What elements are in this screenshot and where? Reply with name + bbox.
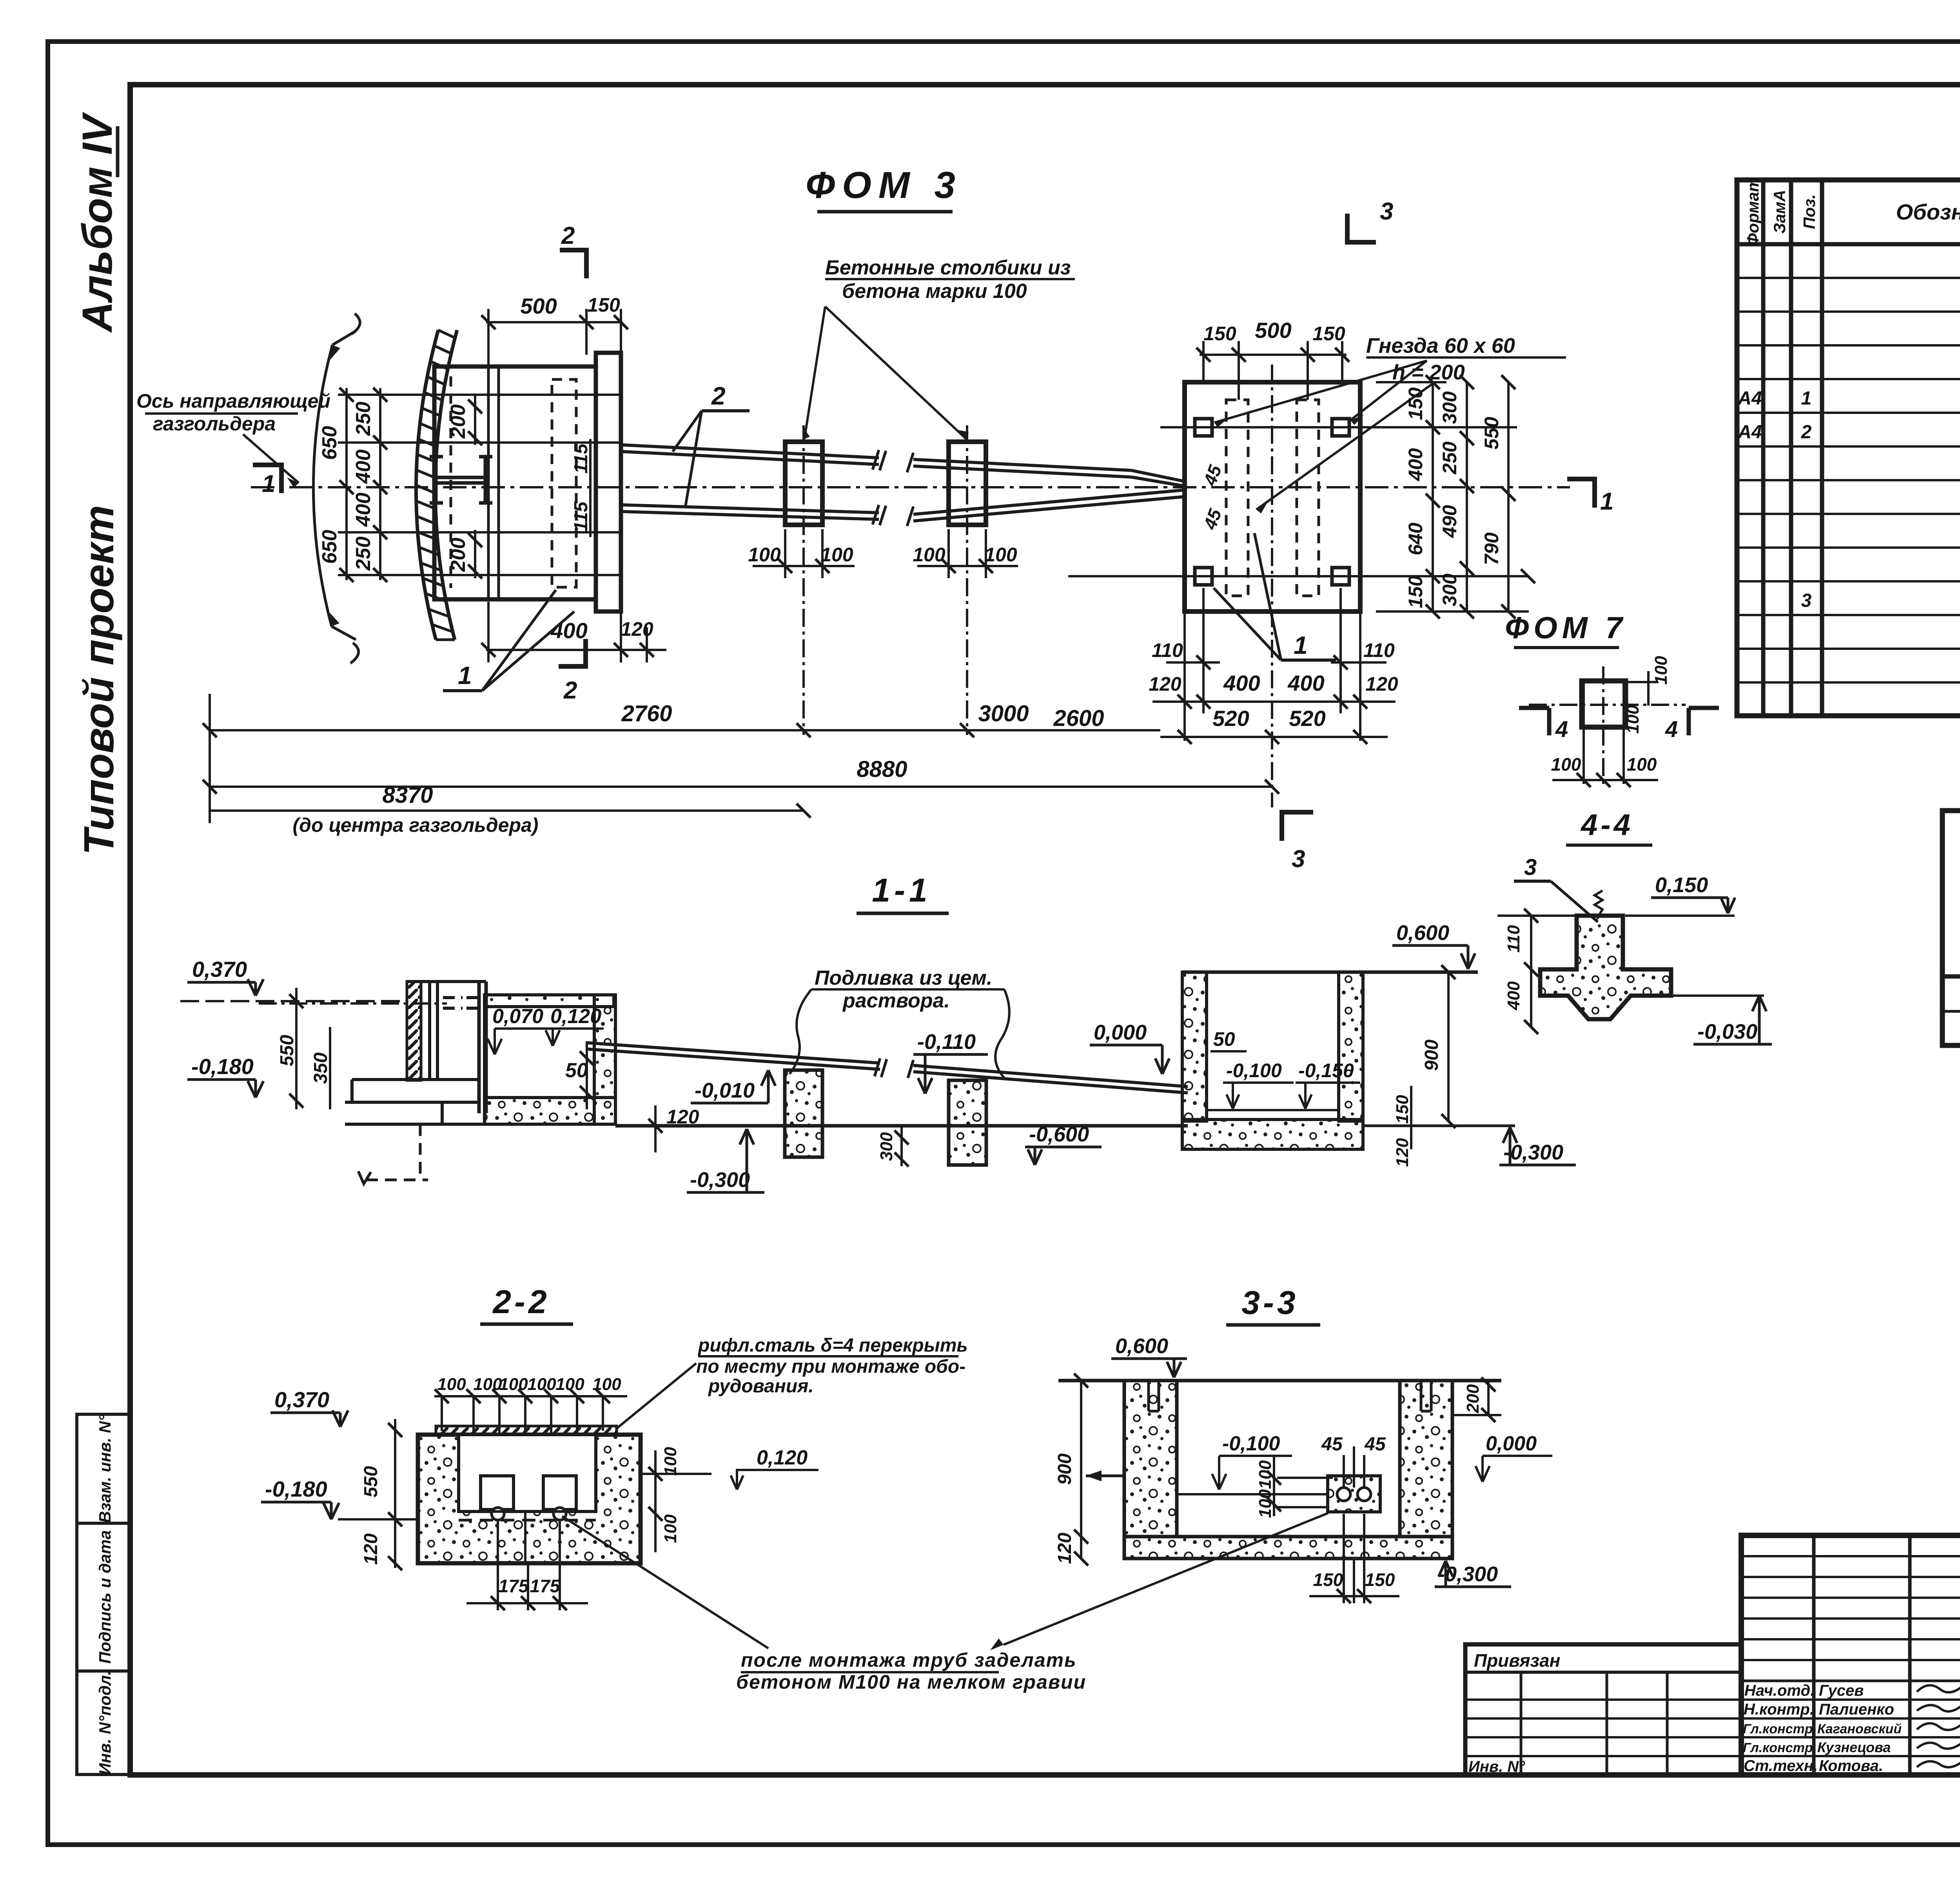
svg-text:ЗамА: ЗамА bbox=[1770, 190, 1789, 234]
bottom-left stamp strip: Инв. № подл. bbox=[77, 1671, 130, 1775]
dim 200 upper (left block) bbox=[474, 396, 476, 445]
svg-text:2: 2 bbox=[561, 222, 575, 249]
FOM7 extension lines bbox=[1583, 681, 1585, 784]
concrete post 1 (section) bbox=[785, 1070, 822, 1157]
right block top dim 150/500/150 bbox=[1200, 354, 1347, 356]
svg-text:0,150: 0,150 bbox=[1655, 873, 1708, 897]
svg-text:650: 650 bbox=[318, 530, 341, 564]
post 1 dim 100/100 bbox=[753, 565, 855, 567]
anchor rods through section (left to posts) bbox=[586, 1043, 880, 1069]
anchor boxes (sec 2-2) bbox=[481, 1476, 514, 1510]
steel table frame bbox=[1942, 811, 1960, 1045]
svg-text:Бетонные столбики из: Бетонные столбики из bbox=[825, 256, 1071, 279]
svg-text:Инв. N°подл.: Инв. N°подл. bbox=[96, 1671, 114, 1775]
section mark 3 top bbox=[1347, 214, 1376, 242]
svg-text:250: 250 bbox=[352, 402, 375, 436]
anchor socket top-right bbox=[1332, 419, 1349, 436]
svg-text:100: 100 bbox=[1651, 656, 1671, 685]
svg-text:Инв. N°: Инв. N° bbox=[1468, 1758, 1525, 1775]
svg-text:-0,010: -0,010 bbox=[695, 1079, 755, 1102]
svg-text:1: 1 bbox=[1294, 631, 1308, 659]
svg-text:150: 150 bbox=[1313, 1570, 1343, 1590]
floor line (sec 3-3) bbox=[1177, 1493, 1328, 1495]
svg-text:-0,300: -0,300 bbox=[1503, 1141, 1563, 1164]
section mark 4 left bbox=[1519, 708, 1549, 735]
section mark 2 bottom bbox=[559, 639, 586, 666]
svg-text:350: 350 bbox=[310, 1052, 331, 1084]
parts table column lines bbox=[1761, 180, 1766, 716]
left dim chain 550/120 (sec 2-2) bbox=[394, 1419, 396, 1568]
svg-text:120: 120 bbox=[621, 618, 653, 640]
right pit (sec 1-1): ground top line bbox=[1182, 971, 1478, 974]
section mark 3 bottom bbox=[1282, 812, 1313, 841]
concrete post 1 (plan) bbox=[785, 442, 822, 525]
svg-text:120: 120 bbox=[1393, 1138, 1412, 1167]
left wall (sec 3-3) bbox=[1124, 1381, 1177, 1537]
parts table header bottom bbox=[1737, 242, 1960, 247]
svg-text:4: 4 bbox=[1555, 717, 1568, 742]
inner white cavity bbox=[459, 1435, 596, 1511]
svg-text:2760: 2760 bbox=[621, 701, 672, 726]
svg-text:100: 100 bbox=[437, 1375, 466, 1394]
svg-text:100: 100 bbox=[984, 544, 1017, 566]
right block second chain 300/250/490/300 bbox=[1466, 382, 1468, 611]
svg-text:рифл.сталь δ=4 перекрыть: рифл.сталь δ=4 перекрыть bbox=[697, 1335, 968, 1356]
top dim line 100x6 (sec 2-2) bbox=[434, 1395, 627, 1397]
svg-text:бетона марки 100: бетона марки 100 bbox=[842, 280, 1027, 303]
anchor socket bottom-right bbox=[1332, 568, 1349, 585]
svg-text:45: 45 bbox=[1321, 1434, 1343, 1455]
svg-text:550: 550 bbox=[361, 1466, 381, 1497]
svg-text:120: 120 bbox=[1149, 673, 1181, 695]
svg-text:1: 1 bbox=[1801, 388, 1812, 409]
long dim 8370 (to gasholder center) bbox=[210, 809, 804, 812]
svg-text:110: 110 bbox=[1152, 639, 1183, 661]
svg-text:4-4: 4-4 bbox=[1580, 808, 1633, 842]
I-beam symbol bbox=[430, 457, 492, 503]
svg-text:Котова.: Котова. bbox=[1819, 1757, 1883, 1775]
svg-text:2600: 2600 bbox=[1053, 706, 1104, 731]
svg-text:Ст.техн.: Ст.техн. bbox=[1744, 1757, 1818, 1775]
svg-text:по месту при монтаже обо-: по месту при монтаже обо- bbox=[696, 1356, 965, 1377]
right block third chain 550/790 bbox=[1507, 382, 1510, 611]
top dim 500/150 (left block) bbox=[486, 321, 622, 323]
svg-text:400: 400 bbox=[1287, 671, 1324, 695]
svg-text:Гусев: Гусев bbox=[1819, 1682, 1864, 1699]
svg-text:1: 1 bbox=[262, 470, 275, 497]
svg-text:400: 400 bbox=[1504, 981, 1523, 1011]
svg-text:250: 250 bbox=[1439, 441, 1461, 475]
svg-text:ФОМ 7: ФОМ 7 bbox=[1505, 610, 1627, 645]
svg-text:Привязан: Привязан bbox=[1474, 1650, 1560, 1671]
privyazan inner columns bbox=[1520, 1672, 1523, 1775]
svg-text:-0,300: -0,300 bbox=[690, 1168, 750, 1192]
svg-text:400: 400 bbox=[352, 493, 375, 527]
svg-text:-0,100: -0,100 bbox=[1226, 1060, 1282, 1081]
main horizontal axis line bbox=[251, 486, 1570, 488]
svg-text:Кагановский: Кагановский bbox=[1817, 1722, 1902, 1736]
privyazan row lines bbox=[1465, 1698, 1741, 1701]
svg-text:-0,600: -0,600 bbox=[1029, 1123, 1089, 1146]
svg-text:200: 200 bbox=[1463, 1384, 1483, 1413]
svg-text:после монтажа труб заделать: после монтажа труб заделать bbox=[741, 1649, 1077, 1671]
svg-text:0,370: 0,370 bbox=[192, 957, 247, 982]
rods fanning into right block bbox=[1131, 470, 1185, 486]
svg-text:150: 150 bbox=[1365, 1570, 1395, 1590]
svg-text:2-2: 2-2 bbox=[492, 1283, 550, 1320]
svg-text:100: 100 bbox=[1623, 705, 1642, 734]
checkered plate strip (sec 2-2) bbox=[436, 1426, 617, 1435]
svg-text:2: 2 bbox=[1801, 422, 1812, 443]
right wall (sec 3-3) bbox=[1400, 1381, 1452, 1537]
svg-text:900: 900 bbox=[1054, 1453, 1075, 1485]
axis dash-dot into column bbox=[259, 1002, 447, 1005]
anchor centerline bottom bbox=[1068, 575, 1529, 577]
svg-text:150: 150 bbox=[1405, 575, 1426, 608]
right block bottom chain 110 / 110 bbox=[1166, 661, 1220, 664]
dim 150 (right pit) bbox=[1410, 1086, 1412, 1149]
svg-text:Гл.констр.: Гл.констр. bbox=[1743, 1722, 1817, 1736]
vertical dim chain 650/650 bbox=[345, 388, 348, 580]
signature rows bbox=[1741, 1698, 1960, 1701]
svg-text:3: 3 bbox=[1801, 590, 1812, 611]
rod break marks upper bbox=[873, 450, 913, 472]
svg-text:3-3: 3-3 bbox=[1241, 1284, 1298, 1321]
dim 300 rotated (sec 1-1) bbox=[900, 1126, 903, 1166]
right dims 100/100 + 0,120 (sec 2-2) bbox=[641, 1473, 711, 1475]
svg-text:550: 550 bbox=[1481, 417, 1503, 450]
left dim 110/400 (4-4) bbox=[1530, 916, 1532, 1027]
svg-text:Поз.: Поз. bbox=[1800, 194, 1818, 229]
svg-text:3: 3 bbox=[1380, 198, 1393, 225]
bottom-left stamp strip: Взам. инв. № bbox=[77, 1414, 130, 1523]
svg-text:400: 400 bbox=[352, 450, 375, 484]
svg-text:0,600: 0,600 bbox=[1115, 1334, 1168, 1358]
svg-text:0,600: 0,600 bbox=[1396, 921, 1449, 945]
svg-text:Альбом IV: Альбом IV bbox=[73, 112, 121, 333]
svg-text:Взам. инв. N°: Взам. инв. N° bbox=[96, 1414, 114, 1523]
bottom slab (sec 3-3) bbox=[1124, 1537, 1452, 1559]
svg-text:-0,110: -0,110 bbox=[917, 1030, 976, 1054]
svg-text:8880: 8880 bbox=[857, 757, 907, 782]
svg-text:-0,180: -0,180 bbox=[265, 1477, 327, 1501]
svg-text:раствора.: раствора. bbox=[842, 989, 950, 1012]
anchor block (sec 3-3) bbox=[1328, 1476, 1380, 1512]
foundation block (left, plan) bbox=[434, 367, 596, 599]
anchor socket top-left bbox=[1195, 419, 1212, 436]
vertical dims 550/350 (sec 1-1) bbox=[295, 988, 298, 1109]
ground line (sec 1-1) bbox=[615, 1124, 1188, 1128]
step ledge left of pit (sec 1-1) bbox=[345, 1080, 485, 1124]
dim 200 (sec 3-3) bbox=[1487, 1381, 1490, 1415]
svg-text:100: 100 bbox=[499, 1375, 528, 1394]
pit bottom slab (sec 1-1 left) bbox=[485, 1098, 615, 1124]
title block left column lines bbox=[1812, 1535, 1816, 1775]
svg-text:200: 200 bbox=[447, 538, 470, 572]
svg-text:300: 300 bbox=[1439, 391, 1461, 424]
svg-text:2: 2 bbox=[563, 677, 577, 704]
svg-text:А4: А4 bbox=[1737, 388, 1762, 409]
svg-text:100: 100 bbox=[913, 544, 946, 566]
svg-text:100: 100 bbox=[1256, 1460, 1275, 1489]
svg-text:0,070: 0,070 bbox=[492, 1005, 543, 1028]
right block right dim chain 150/400/640/150 bbox=[1432, 382, 1434, 611]
pit right wall (sec 1-1 left) bbox=[594, 995, 615, 1124]
title block frame bbox=[1741, 1535, 1960, 1775]
svg-text:Гнезда 60 х 60: Гнезда 60 х 60 bbox=[1366, 334, 1515, 357]
svg-text:45: 45 bbox=[1364, 1434, 1386, 1455]
anchor centerline top bbox=[1160, 426, 1517, 428]
svg-text:650: 650 bbox=[318, 426, 341, 460]
svg-text:Нач.отд.: Нач.отд. bbox=[1744, 1682, 1815, 1699]
svg-text:115: 115 bbox=[571, 501, 592, 532]
svg-text:120: 120 bbox=[361, 1533, 381, 1565]
svg-text:400: 400 bbox=[550, 618, 587, 643]
bottom-left stamp strip: Подпись и дата bbox=[77, 1523, 130, 1671]
underline under IV bbox=[116, 126, 120, 177]
dashed rail top marks bbox=[443, 998, 482, 1008]
leader from 3-3 block to note bbox=[1004, 1513, 1328, 1645]
right pit bottom slab bbox=[1182, 1120, 1363, 1149]
svg-text:120: 120 bbox=[666, 1106, 699, 1128]
svg-text:Подпись и дата: Подпись и дата bbox=[96, 1530, 114, 1664]
ground line (sec 3-3) bbox=[1058, 1379, 1501, 1383]
svg-text:рудования.: рудования. bbox=[708, 1376, 814, 1397]
svg-text:490: 490 bbox=[1439, 505, 1461, 538]
svg-text:0,000: 0,000 bbox=[1094, 1021, 1147, 1044]
svg-text:h = 200: h = 200 bbox=[1392, 361, 1465, 384]
right pit right wall bbox=[1339, 972, 1363, 1121]
svg-text:300: 300 bbox=[1439, 573, 1461, 606]
dim 900 (right pit) bbox=[1447, 972, 1450, 1121]
svg-text:8370: 8370 bbox=[382, 782, 433, 808]
inner recess lines in walls bbox=[1149, 1381, 1159, 1411]
section mark 2 top bbox=[560, 250, 586, 278]
title block left row lines (upper) bbox=[1741, 1555, 1960, 1557]
right block bottom chain 120/400/400/120 bbox=[1152, 700, 1396, 703]
svg-text:150: 150 bbox=[1203, 323, 1236, 345]
FOM7 bottom dim 100/100 bbox=[1552, 779, 1658, 781]
post 1 axis bbox=[802, 425, 805, 735]
svg-text:Обозначение: Обозначение bbox=[1896, 200, 1960, 224]
inner level line (right pit) bbox=[1207, 1109, 1339, 1111]
dim 200 lower (left block) bbox=[474, 530, 476, 578]
detail 4-4 concrete tee bbox=[1540, 916, 1671, 1019]
svg-text:-0,100: -0,100 bbox=[1222, 1432, 1280, 1455]
section mark 1 right bbox=[1567, 479, 1595, 508]
svg-text:100: 100 bbox=[661, 1514, 680, 1543]
anchor circles bbox=[492, 1508, 504, 1520]
svg-text:1: 1 bbox=[458, 661, 472, 690]
svg-text:Формат: Формат bbox=[1744, 177, 1762, 246]
rail plate right bbox=[596, 353, 621, 611]
svg-text:500: 500 bbox=[520, 294, 557, 318]
svg-text:175: 175 bbox=[499, 1576, 529, 1596]
svg-text:Кузнецова: Кузнецова bbox=[1817, 1739, 1891, 1755]
leader from 2-2 anchors to note bbox=[562, 1516, 768, 1648]
svg-text:-0,150: -0,150 bbox=[1298, 1060, 1354, 1081]
post 2 dim 100/100 bbox=[917, 565, 1018, 567]
svg-text:50: 50 bbox=[565, 1059, 588, 1082]
svg-text:250: 250 bbox=[352, 537, 375, 571]
rail column (sec 1-1) bbox=[407, 982, 421, 1080]
svg-text:0,120: 0,120 bbox=[550, 1005, 601, 1028]
parts table row lines bbox=[1737, 277, 1960, 279]
dashed channels in right block bbox=[1226, 400, 1248, 596]
svg-text:200: 200 bbox=[447, 405, 470, 439]
svg-text:120: 120 bbox=[1054, 1533, 1075, 1564]
privyazan box bbox=[1465, 1644, 1741, 1775]
svg-text:3000: 3000 bbox=[978, 701, 1029, 726]
svg-text:100: 100 bbox=[748, 544, 781, 566]
svg-text:150: 150 bbox=[1405, 387, 1426, 420]
dim 115/115 (left block) bbox=[589, 439, 592, 537]
post 2 axis bbox=[966, 425, 968, 735]
inner pit lines bbox=[483, 1007, 486, 1124]
concrete post 2 (plan) bbox=[949, 442, 986, 525]
left arrow (sec 3-3) bbox=[1086, 1475, 1124, 1477]
svg-text:(до центра газгольдера): (до центра газгольдера) bbox=[293, 814, 539, 836]
svg-text:300: 300 bbox=[877, 1132, 896, 1161]
concrete post 2 (section) bbox=[949, 1080, 986, 1165]
pit top slab (sec 1-1 left) bbox=[485, 995, 614, 1007]
svg-text:100: 100 bbox=[527, 1375, 556, 1394]
svg-text:Гл.констр: Гл.констр bbox=[1743, 1740, 1813, 1755]
right pit left wall bbox=[1182, 972, 1207, 1121]
right block bottom chain 520/520 bbox=[1160, 736, 1388, 738]
rod break marks lower bbox=[873, 505, 913, 526]
bolt zigzag on tee bbox=[1595, 891, 1602, 916]
svg-text:-0,030: -0,030 bbox=[1697, 1020, 1757, 1043]
svg-text:100: 100 bbox=[820, 544, 853, 566]
svg-text:640: 640 bbox=[1405, 523, 1426, 555]
anchor socket bottom-left bbox=[1195, 568, 1212, 585]
parts table frame bbox=[1737, 180, 1960, 716]
right block vertical axis bbox=[1271, 365, 1273, 807]
svg-text:175: 175 bbox=[530, 1576, 561, 1596]
svg-text:120: 120 bbox=[1365, 673, 1398, 695]
tie rod pair lower (plan) bbox=[622, 490, 1185, 521]
long dim chain 2760/3000/2600 bbox=[210, 729, 1160, 731]
dim 100/100 (sec 3-3) bbox=[1273, 1456, 1275, 1516]
inner lines of left block bbox=[487, 367, 490, 599]
svg-text:3: 3 bbox=[1524, 855, 1537, 880]
svg-text:2: 2 bbox=[711, 382, 726, 410]
svg-text:Палиенко: Палиенко bbox=[1819, 1701, 1894, 1718]
long dim 8880 bbox=[210, 786, 1272, 788]
tie rod pair upper (plan) bbox=[622, 445, 1131, 477]
svg-text:Ось направляющей: Ось направляющей bbox=[136, 390, 330, 412]
svg-text:1-1: 1-1 bbox=[872, 872, 931, 909]
svg-text:520: 520 bbox=[1289, 706, 1325, 731]
svg-text:100: 100 bbox=[661, 1447, 680, 1476]
svg-text:0,370: 0,370 bbox=[274, 1387, 329, 1412]
svg-text:100: 100 bbox=[1256, 1489, 1275, 1518]
svg-text:4: 4 bbox=[1665, 717, 1678, 742]
svg-text:400: 400 bbox=[1223, 671, 1260, 695]
svg-text:900: 900 bbox=[1421, 1040, 1442, 1071]
svg-text:3: 3 bbox=[1292, 846, 1305, 873]
svg-text:150: 150 bbox=[587, 294, 620, 316]
svg-text:100: 100 bbox=[1627, 754, 1657, 775]
svg-text:газгольдера: газгольдера bbox=[153, 413, 276, 435]
svg-text:550: 550 bbox=[277, 1035, 298, 1066]
svg-text:790: 790 bbox=[1481, 532, 1503, 565]
svg-text:50: 50 bbox=[1213, 1028, 1235, 1050]
right foundation block (plan) bbox=[1185, 382, 1360, 611]
svg-text:0,000: 0,000 bbox=[1486, 1432, 1537, 1455]
FOM7 dim 100 top right bbox=[1624, 681, 1658, 683]
svg-text:Типовой проект: Типовой проект bbox=[75, 505, 122, 855]
svg-text:500: 500 bbox=[1255, 318, 1291, 343]
svg-text:-0,180: -0,180 bbox=[191, 1054, 254, 1079]
bottom dim 400/120 (left block) bbox=[486, 649, 666, 651]
bottom dim 175/175 (sec 2-2) bbox=[497, 1520, 499, 1610]
svg-text:110: 110 bbox=[1504, 925, 1523, 953]
svg-text:100: 100 bbox=[1551, 754, 1581, 775]
concrete block (sec 2-2) bbox=[418, 1435, 641, 1563]
steel body separator bbox=[1942, 974, 1960, 979]
horizontal grid lines across left block bbox=[338, 394, 621, 396]
svg-text:150: 150 bbox=[1312, 323, 1345, 345]
outer curved dimension line with arrows bbox=[313, 345, 332, 626]
gasholder wall arc band bbox=[416, 330, 438, 640]
section mark 1 left bbox=[253, 465, 281, 493]
section mark 4 right bbox=[1689, 708, 1719, 735]
svg-text:Н.контр.: Н.контр. bbox=[1744, 1701, 1814, 1718]
svg-text:115: 115 bbox=[571, 443, 592, 474]
svg-text:А4: А4 bbox=[1737, 422, 1762, 443]
svg-text:1: 1 bbox=[1600, 488, 1613, 515]
dim 900/120 (sec 3-3) bbox=[1080, 1381, 1082, 1559]
FOM7 centerlines bbox=[1529, 704, 1686, 706]
svg-text:Подливка из цем.: Подливка из цем. bbox=[815, 967, 992, 989]
svg-text:бетоном М100 на мелком гравии: бетоном М100 на мелком гравии bbox=[736, 1671, 1086, 1693]
anchor plate line bbox=[459, 1510, 596, 1513]
svg-text:400: 400 bbox=[1405, 448, 1426, 481]
svg-text:150: 150 bbox=[1393, 1095, 1412, 1124]
svg-text:520: 520 bbox=[1212, 706, 1249, 731]
svg-text:0,120: 0,120 bbox=[757, 1446, 808, 1469]
svg-text:110: 110 bbox=[1363, 639, 1395, 661]
svg-text:ФОМ 3: ФОМ 3 bbox=[806, 164, 962, 206]
vertical dim chain 250/400/400/250 bbox=[379, 388, 381, 580]
bottom dim 150/150 (sec 3-3) bbox=[1343, 1514, 1345, 1603]
FOM7 square pad bbox=[1582, 681, 1626, 727]
svg-text:100: 100 bbox=[473, 1375, 502, 1394]
